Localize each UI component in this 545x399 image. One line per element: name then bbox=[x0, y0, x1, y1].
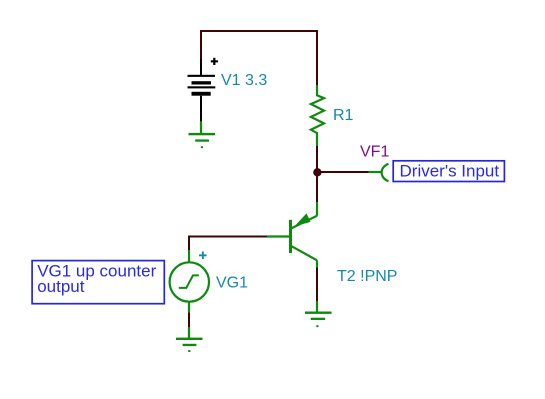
label T2 !PNP bbox=[337, 268, 397, 285]
label VG1 bbox=[216, 275, 248, 292]
wire right vertical top into R1 bbox=[316, 30, 318, 85]
generator VG1 bbox=[170, 250, 209, 312]
svg-text:V1 3.3: V1 3.3 bbox=[221, 72, 267, 89]
ground below T2 bbox=[305, 301, 332, 327]
label VF1 bbox=[360, 143, 389, 160]
resistor R1 bbox=[311, 85, 324, 146]
label V1 3.3 bbox=[221, 72, 267, 89]
wire junction to output pin bbox=[317, 171, 369, 173]
svg-text:Driver's Input: Driver's Input bbox=[400, 162, 500, 181]
wire base of T2 to VG1 corner bbox=[189, 236, 267, 238]
label box VG1 up counter output bbox=[32, 261, 164, 304]
label box Driver's Input bbox=[393, 161, 504, 182]
output pin arc bbox=[382, 164, 389, 181]
transistor T2 bbox=[267, 202, 317, 268]
svg-text:output: output bbox=[37, 277, 85, 296]
ground below VG1 bbox=[176, 327, 203, 352]
wire R1 bottom to junction and down to T2 emitter bbox=[316, 146, 318, 202]
wire VG1 to ground bbox=[188, 312, 190, 327]
label R1 bbox=[333, 107, 354, 124]
wire top horizontal V1+ to R1 bbox=[200, 30, 318, 32]
svg-text:VF1: VF1 bbox=[360, 143, 389, 160]
svg-text:T2 !PNP: T2 !PNP bbox=[337, 268, 397, 285]
wire corner down to VG1 bbox=[188, 236, 190, 251]
output pin lead bbox=[369, 171, 382, 173]
wire left vertical into V1 bbox=[200, 30, 202, 59]
battery V1 bbox=[188, 58, 219, 122]
wire T2 collector to ground bbox=[316, 268, 318, 302]
ground below V1 bbox=[189, 121, 216, 148]
svg-text:R1: R1 bbox=[333, 107, 354, 124]
svg-text:VG1: VG1 bbox=[216, 275, 248, 292]
junction node VF1 bbox=[313, 168, 321, 176]
